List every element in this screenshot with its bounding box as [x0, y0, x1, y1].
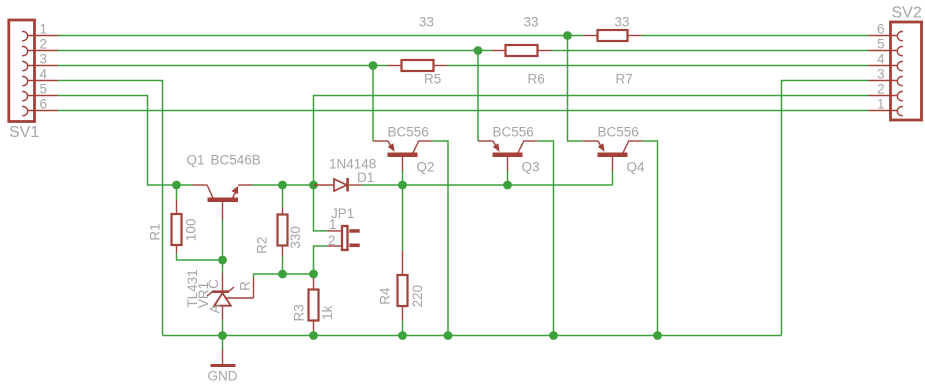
SV2 pin 3 — [869, 80, 898, 82]
ground — [208, 336, 238, 384]
wire row4 right / SV2 pin3 down — [782, 81, 869, 336]
SV1 pin 6 — [28, 110, 58, 112]
svg-text:1: 1 — [877, 97, 885, 112]
SV2 pin numbers — [877, 22, 885, 112]
svg-text:SV1: SV1 — [9, 124, 39, 141]
wire Q1 emitter to D1 — [252, 184, 314, 186]
wire row5 to Q1 rail — [58, 96, 193, 186]
svg-text:D1: D1 — [357, 170, 374, 185]
wire row2 right — [552, 50, 869, 52]
resistor R2 — [255, 185, 303, 274]
node Q3 base — [503, 181, 512, 190]
jumper JP1 — [314, 185, 360, 274]
transistor Q2 — [373, 125, 435, 175]
svg-text:BC556: BC556 — [388, 125, 429, 140]
SV2 pin 4 — [869, 65, 898, 67]
resistor R3 — [292, 274, 335, 336]
svg-text:SV2: SV2 — [892, 5, 922, 22]
resistor R7 — [584, 15, 642, 87]
wire row5 right / SV2 pin2 down — [314, 96, 869, 186]
svg-text:33: 33 — [615, 15, 630, 30]
SV1 pin 1 — [28, 35, 58, 37]
wire row2 left — [58, 50, 492, 52]
svg-text:BC546B: BC546B — [211, 153, 261, 168]
wire row6 — [58, 110, 869, 112]
SV1 pin 5 — [28, 95, 58, 97]
svg-text:330: 330 — [288, 226, 303, 249]
resistor R6 — [492, 15, 552, 87]
node rail VR1 — [218, 331, 227, 340]
SV1 pin 2 — [28, 50, 58, 52]
connector SV2 — [891, 5, 922, 121]
svg-text:4: 4 — [40, 67, 48, 82]
svg-text:Q3: Q3 — [522, 160, 540, 175]
node rail Q4 collector — [653, 331, 662, 340]
svg-text:R5: R5 — [424, 72, 441, 87]
svg-text:33: 33 — [524, 15, 539, 30]
shunt regulator VR1 TL431 — [185, 260, 314, 336]
SV1 pin numbers — [40, 22, 48, 112]
resistor R4 — [378, 185, 425, 336]
node R2 bottom — [278, 270, 287, 279]
svg-text:R2: R2 — [255, 237, 270, 254]
wire Q3 collector down — [538, 141, 554, 336]
svg-text:3: 3 — [877, 67, 885, 82]
transistor Q3 — [478, 125, 540, 175]
node rail Q3 collector — [549, 331, 558, 340]
svg-text:6: 6 — [877, 22, 885, 37]
wire Q4 emitter drop — [568, 36, 583, 142]
node Q2 base / R4 — [398, 181, 407, 190]
svg-text:BC556: BC556 — [598, 125, 639, 140]
svg-text:Q2: Q2 — [417, 160, 435, 175]
node tap R5 — [369, 61, 378, 70]
wire Q1 base down — [222, 220, 224, 261]
node ref rail end — [309, 270, 318, 279]
node R1 top — [172, 181, 181, 190]
SV1 pin 4 — [28, 80, 58, 82]
svg-text:2: 2 — [877, 82, 885, 97]
wire Q3 base — [507, 171, 509, 186]
svg-text:Q1: Q1 — [187, 153, 205, 168]
SV2 pin 6 — [869, 35, 898, 37]
svg-text:R1: R1 — [148, 223, 163, 240]
wire ground rail — [163, 335, 782, 337]
node R2 top — [278, 181, 287, 190]
svg-text:220: 220 — [410, 285, 425, 308]
svg-text:33: 33 — [419, 15, 434, 30]
SV2 pin 5 — [869, 50, 898, 52]
node D1 anode junction — [309, 181, 318, 190]
wire Q2 emitter drop — [372, 66, 374, 142]
node tap R7 — [563, 31, 572, 40]
wire row3 left — [58, 65, 388, 67]
svg-text:R6: R6 — [528, 72, 545, 87]
connector SV1 — [9, 20, 40, 141]
wire row3 right — [448, 65, 869, 67]
svg-text:R7: R7 — [616, 72, 633, 87]
transistor Q1 — [187, 153, 261, 220]
svg-text:R4: R4 — [378, 287, 393, 305]
svg-text:BC556: BC556 — [493, 125, 534, 140]
diode D1 1N4148 — [314, 157, 377, 192]
svg-text:2: 2 — [328, 233, 336, 248]
svg-text:5: 5 — [877, 37, 885, 52]
resistor R5 — [388, 15, 448, 87]
SV1 pin 3 — [28, 65, 58, 67]
svg-text:C: C — [206, 279, 221, 289]
node rail R4 — [398, 331, 407, 340]
svg-text:R3: R3 — [292, 304, 307, 321]
svg-text:Q4: Q4 — [627, 160, 646, 175]
svg-text:100: 100 — [184, 219, 199, 242]
wire Q4 base — [612, 171, 614, 186]
transistor Q4 — [583, 125, 646, 175]
wire Q2 base — [402, 171, 404, 186]
svg-text:1: 1 — [40, 22, 48, 37]
node rail R3 — [309, 331, 318, 340]
svg-text:4: 4 — [877, 52, 885, 67]
svg-text:5: 5 — [40, 82, 48, 97]
resistor R1 — [148, 185, 223, 260]
node tap R6 — [474, 46, 483, 55]
svg-text:2: 2 — [40, 37, 48, 52]
node rail Q2 collector — [444, 331, 453, 340]
svg-text:1k: 1k — [320, 305, 335, 320]
wire row1 right — [642, 35, 869, 37]
wire row1 left — [58, 35, 584, 37]
SV2 pin 1 — [869, 110, 898, 112]
svg-text:6: 6 — [40, 97, 48, 112]
wire Q3 emitter drop — [477, 51, 479, 142]
svg-text:R: R — [238, 281, 253, 291]
wire Q2 collector down — [433, 141, 449, 336]
wire Q4 collector down — [643, 141, 658, 336]
wire row4 — [58, 81, 163, 336]
node base/R1 junction — [218, 256, 227, 265]
wire D1 to Q4 base — [362, 184, 613, 186]
svg-text:GND: GND — [208, 369, 238, 384]
svg-text:3: 3 — [40, 52, 48, 67]
SV2 pin 2 — [869, 95, 898, 97]
svg-text:A: A — [208, 304, 223, 313]
svg-text:1: 1 — [329, 217, 337, 232]
